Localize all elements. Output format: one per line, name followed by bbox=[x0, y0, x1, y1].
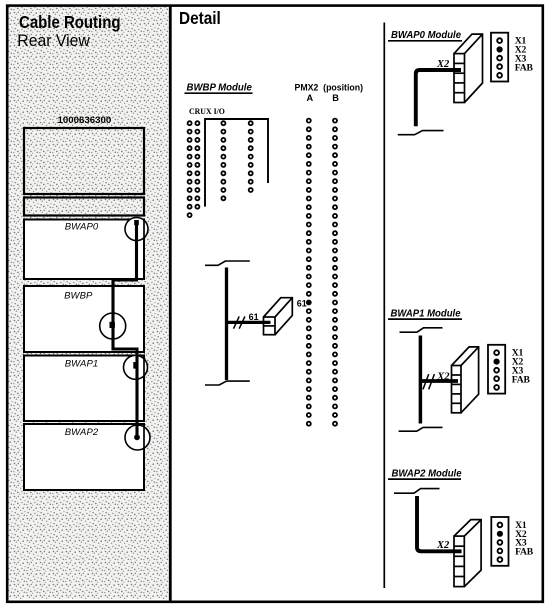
BWAP0 cable break bbox=[398, 131, 444, 135]
BWAP2 X2 cable bbox=[417, 496, 462, 551]
BWAP1 cable bottom break bbox=[399, 427, 443, 431]
svg-text:CRUX I/O: CRUX I/O bbox=[189, 106, 225, 116]
svg-text:BWAP1: BWAP1 bbox=[65, 359, 99, 370]
svg-text:FAB: FAB bbox=[515, 547, 534, 558]
svg-text:A: A bbox=[307, 93, 314, 103]
CRUX I/O bracket outline bbox=[205, 119, 268, 207]
BWAP1 cable crossing slashes bbox=[423, 374, 434, 389]
cable crossing slashes bbox=[234, 316, 245, 328]
BWAP0 X2 cable bbox=[416, 70, 461, 126]
svg-text:BWAP0 Module: BWAP0 Module bbox=[391, 30, 461, 41]
svg-text:BWBP Module: BWBP Module bbox=[187, 83, 253, 94]
CRUX I/O pin column 3 bbox=[221, 121, 225, 200]
BWBP horizontal cable branch bbox=[227, 321, 271, 324]
CRUX I/O pin column 4 bbox=[249, 121, 253, 192]
BWBP cable top break bbox=[205, 261, 250, 265]
CRUX I/O label bbox=[189, 106, 225, 116]
rack box BWAP2 bbox=[24, 424, 144, 490]
rack: top blank box bbox=[24, 128, 144, 194]
rack: thin blank box bbox=[24, 198, 144, 216]
svg-text:61: 61 bbox=[249, 312, 259, 322]
PMX2 pin column B bbox=[333, 119, 337, 426]
label 61 at PMX2 pin bbox=[297, 299, 307, 309]
BWAP1 pin legend bbox=[488, 345, 530, 394]
svg-text:B: B bbox=[332, 93, 339, 103]
BWAP1 X2 label bbox=[436, 371, 450, 382]
BWAP1 Module label bbox=[388, 309, 462, 320]
subtitle: Rear View bbox=[17, 31, 90, 50]
divider between Detail area and right module column bbox=[383, 23, 385, 589]
svg-text:BWAP2 Module: BWAP2 Module bbox=[392, 469, 462, 480]
BWAP2 connector bbox=[454, 520, 481, 587]
svg-text:FAB: FAB bbox=[515, 62, 534, 73]
BWBP Module label bbox=[185, 83, 253, 94]
connector circle on BWAP2 bbox=[125, 425, 150, 450]
rack box BWAP0 bbox=[24, 220, 144, 280]
part number 1000636300 bbox=[58, 115, 112, 126]
BWAP0 X2 label bbox=[436, 59, 450, 70]
BWAP1 connector bbox=[452, 347, 479, 413]
PMX2 pin column A with filled pin 61 bbox=[306, 119, 312, 426]
connector circle on BWBP bbox=[100, 313, 126, 339]
connector 61 oblique box bbox=[264, 298, 293, 335]
BWBP vertical cable bbox=[225, 268, 228, 381]
PMX2 (position) label bbox=[295, 82, 364, 103]
svg-text:BWAP0: BWAP0 bbox=[65, 221, 99, 232]
BWAP0 connector bbox=[454, 34, 483, 102]
svg-text:Rear View: Rear View bbox=[17, 31, 90, 50]
BWAP1 horizontal cable branch bbox=[420, 379, 458, 383]
title: Cable Routing bbox=[19, 12, 121, 32]
svg-text:1000636300: 1000636300 bbox=[58, 115, 112, 126]
rack box BWBP bbox=[24, 286, 144, 352]
svg-text:PMX2 (position): PMX2 (position) bbox=[295, 82, 364, 92]
BWAP2 cable break bbox=[394, 489, 440, 494]
BWAP0 Module label bbox=[388, 30, 462, 41]
BWAP2 Module label bbox=[388, 469, 462, 480]
BWAP2 X2 label bbox=[436, 540, 450, 551]
divider between left panel and Detail panel bbox=[169, 5, 172, 603]
svg-text:BWBP: BWBP bbox=[64, 291, 93, 302]
CRUX I/O pin column 2 bbox=[195, 121, 199, 209]
svg-text:Detail: Detail bbox=[179, 8, 221, 28]
svg-text:FAB: FAB bbox=[512, 374, 531, 385]
svg-text:BWAP1 Module: BWAP1 Module bbox=[391, 309, 461, 320]
svg-text:61: 61 bbox=[297, 299, 307, 309]
routed cable BWAP0 to BWAP2 bbox=[110, 220, 140, 440]
connector circle on BWAP0 bbox=[125, 218, 148, 241]
BWAP1 vertical cable bbox=[419, 336, 423, 424]
label 61 at connector bbox=[249, 312, 259, 322]
BWBP cable bottom break bbox=[205, 381, 250, 385]
BWAP1 cable top break bbox=[400, 328, 443, 332]
rack box BWAP1 bbox=[24, 356, 144, 422]
connector circle on BWAP1 bbox=[124, 355, 148, 379]
svg-text:Cable Routing: Cable Routing bbox=[19, 12, 121, 32]
svg-text:BWAP2: BWAP2 bbox=[65, 427, 99, 438]
left panel stippled background bbox=[9, 7, 170, 599]
BWAP2 pin legend bbox=[491, 517, 533, 566]
CRUX I/O pin column 1 bbox=[188, 121, 192, 217]
Detail title bbox=[179, 8, 221, 28]
BWAP0 pin legend bbox=[491, 33, 533, 82]
